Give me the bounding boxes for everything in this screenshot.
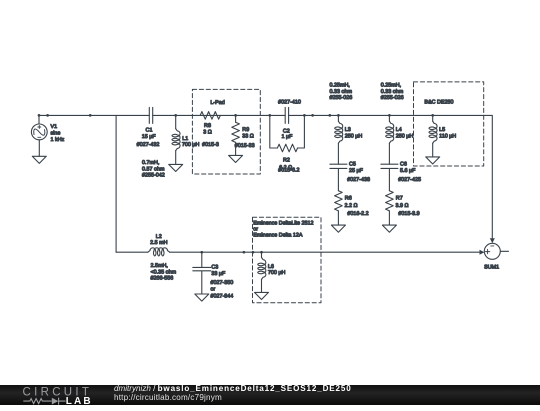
svg-text:700 µH: 700 µH <box>182 142 200 148</box>
svg-text:#027-410: #027-410 <box>278 99 301 105</box>
footer attribution text <box>114 385 352 402</box>
svg-text:250 µH: 250 µH <box>345 133 363 139</box>
svg-text:700 µH: 700 µH <box>268 270 286 276</box>
inductor L3 250uH (vertical) <box>335 115 343 164</box>
svg-text:25 µF: 25 µF <box>349 168 364 174</box>
summer block SUM1 <box>484 243 508 259</box>
voltage source V1 sine 1 kHz <box>31 115 47 156</box>
svg-text:V1: V1 <box>51 124 58 130</box>
svg-text:#027-438: #027-438 <box>347 177 370 183</box>
svg-text:L5: L5 <box>439 127 445 133</box>
resistor R6 2.2ohm (vertical) <box>335 191 343 225</box>
svg-text:3.9 Ω: 3.9 Ω <box>396 203 409 209</box>
ground (L5) <box>426 157 440 164</box>
dashed box L-Pad <box>192 89 260 174</box>
arrowhead into SUM1 from top <box>490 238 495 243</box>
svg-text:33 µF: 33 µF <box>211 271 226 277</box>
node: junction dots on top rail <box>38 114 434 117</box>
inductor L2 2.5mH (horizontal) <box>148 248 170 256</box>
svg-text:R6: R6 <box>345 195 352 201</box>
svg-text:2.2 Ω: 2.2 Ω <box>345 203 358 209</box>
resistor R7 3.9ohm (vertical) <box>386 191 394 225</box>
wire: bottom rail from drop to SUM1 <box>116 251 480 253</box>
ground (L6) <box>255 292 269 299</box>
ground (L1) <box>169 164 183 171</box>
inductor L5 110uH (vertical) <box>429 115 437 156</box>
svg-text:0.25mH,: 0.25mH, <box>330 83 351 89</box>
svg-text:15 µF: 15 µF <box>142 134 157 140</box>
resistor R8 3ohm (horizontal) <box>200 112 220 120</box>
ground (C3) <box>195 294 209 301</box>
capacitor C2 1uF <box>285 107 288 123</box>
svg-text:R8: R8 <box>204 123 211 129</box>
svg-text:250 µH: 250 µH <box>396 133 414 139</box>
svg-text:#027-844: #027-844 <box>211 294 234 300</box>
svg-text:Eminence Delta 12A: Eminence Delta 12A <box>253 233 303 239</box>
svg-text:L3: L3 <box>345 127 351 133</box>
svg-text:#255-042: #255-042 <box>142 173 165 179</box>
capacitor C3 33uF (vertical) <box>193 252 211 294</box>
svg-text:#255-026: #255-026 <box>330 95 353 101</box>
svg-text:C5: C5 <box>349 161 356 167</box>
ground (R9) <box>229 155 243 162</box>
wire: top main rail y=115.4 with right drop to SUM1 <box>39 115 492 238</box>
svg-text:C3: C3 <box>211 264 218 270</box>
svg-text:#016-2.2: #016-2.2 <box>347 211 368 217</box>
svg-text:C6: C6 <box>400 161 407 167</box>
wire: R2 parallel branch <box>270 115 305 148</box>
ground (R6) <box>331 225 345 232</box>
svg-text:#027-425: #027-425 <box>398 177 421 183</box>
resistor R2 6.2ohm (horizontal) <box>277 144 297 152</box>
inductor L1 700uH (vertical) <box>172 115 180 164</box>
svg-text:#255-026: #255-026 <box>381 95 404 101</box>
svg-text:L4: L4 <box>396 127 402 133</box>
inductor L6 700uH (vertical) <box>258 252 266 292</box>
svg-text:C1: C1 <box>146 128 153 134</box>
svg-text:#266-556: #266-556 <box>151 276 174 282</box>
svg-text:or: or <box>211 287 216 293</box>
svg-text:1 kHz: 1 kHz <box>51 137 65 143</box>
svg-text:110 µH: 110 µH <box>439 133 456 139</box>
svg-text:0.57 ohm: 0.57 ohm <box>142 166 165 172</box>
svg-text:R2: R2 <box>283 158 290 164</box>
svg-text:#015-3: #015-3 <box>202 142 219 148</box>
svg-text:0.33 ohm: 0.33 ohm <box>381 89 404 95</box>
svg-text:or: or <box>253 227 258 233</box>
node: junction dots on bottom rail <box>200 251 262 254</box>
inductor L4 250uH (vertical) <box>386 115 394 164</box>
capacitor C5 25uF (vertical) <box>330 164 347 191</box>
svg-text:3 Ω: 3 Ω <box>203 130 212 136</box>
svg-text:2.5mH,: 2.5mH, <box>151 263 169 269</box>
svg-text:#027-432: #027-432 <box>137 142 160 148</box>
svg-text:33 Ω: 33 Ω <box>242 133 254 139</box>
svg-text:2.5 mH: 2.5 mH <box>150 240 167 246</box>
dashed box Eminence driver <box>253 217 322 302</box>
svg-text:R7: R7 <box>396 195 403 201</box>
svg-text:LAB: LAB <box>66 395 93 405</box>
svg-text:sine: sine <box>51 130 61 136</box>
svg-text:L-Pad: L-Pad <box>210 100 224 106</box>
svg-text:L2: L2 <box>156 234 162 240</box>
svg-text:1 µF: 1 µF <box>282 134 294 140</box>
svg-text:#015-6.2: #015-6.2 <box>278 167 299 173</box>
svg-text:R9: R9 <box>242 127 249 133</box>
CircuitLab logo <box>22 386 94 405</box>
arrowhead into SUM1 from left <box>480 250 485 255</box>
svg-text:#015-3.9: #015-3.9 <box>398 211 419 217</box>
svg-text:0.7mH,: 0.7mH, <box>142 160 160 166</box>
dashed box B&C DE250 <box>414 82 484 166</box>
capacitor C6 5.6uF (vertical) <box>381 164 398 191</box>
svg-text:SUM1: SUM1 <box>484 265 499 271</box>
svg-text:L6: L6 <box>268 264 274 270</box>
svg-text:#027-350: #027-350 <box>211 280 234 286</box>
svg-text:5.6 µF: 5.6 µF <box>400 168 416 174</box>
resistor R9 33ohm (vertical) <box>232 115 240 155</box>
svg-text:0.25mH,: 0.25mH, <box>381 83 402 89</box>
svg-text:Eminence DeltaLite 2512: Eminence DeltaLite 2512 <box>253 220 313 226</box>
svg-text:B&C DE250: B&C DE250 <box>424 99 453 105</box>
wire: left vertical drop from top rail to bottom rail <box>115 115 117 252</box>
svg-text:<0.35 ohm: <0.35 ohm <box>151 269 177 275</box>
ground (R7) <box>382 225 396 232</box>
svg-text:#015-33: #015-33 <box>235 143 255 149</box>
capacitor C1 15uF <box>149 107 152 123</box>
svg-text:0.33 ohm: 0.33 ohm <box>330 89 353 95</box>
ground (V1) <box>32 156 46 163</box>
